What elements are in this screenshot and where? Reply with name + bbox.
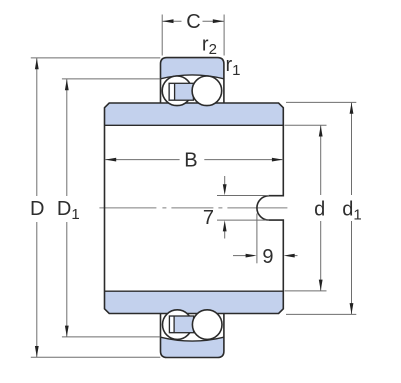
cage top rivet window xyxy=(170,84,174,99)
dimension d extension line bottom xyxy=(285,290,327,292)
svg-text:B: B xyxy=(184,149,197,171)
dimension D arrow bottom xyxy=(35,346,39,357)
centerline (horizontal axis, dash-dot) xyxy=(99,207,289,209)
ball top-left xyxy=(162,76,192,106)
outer ring bottom blue portion xyxy=(161,337,224,357)
cage bottom rivet window xyxy=(170,317,173,332)
dimension B arrow left xyxy=(105,158,116,162)
dimension D extension line top xyxy=(31,57,161,59)
dimension C arrow right xyxy=(213,19,224,23)
outer ring top raceway arc xyxy=(161,75,224,79)
outer ring bottom section (white body) xyxy=(161,314,224,358)
dimension d arrow bottom xyxy=(319,280,323,291)
inner ring top band inner edge xyxy=(105,124,284,126)
cage top (blue) xyxy=(169,83,193,100)
dimension 9 line right xyxy=(293,255,298,257)
inner ring top band (blue) xyxy=(105,103,284,125)
cage top rivet divider xyxy=(174,83,176,100)
outer ring bottom outline xyxy=(161,314,224,358)
dimension 7 arrow bottom xyxy=(223,220,227,231)
cage bottom (blue) xyxy=(169,316,193,333)
dimension C arrow left xyxy=(162,19,173,23)
dimension 9 line left xyxy=(233,255,247,257)
ball bottom-left xyxy=(163,310,193,340)
dimension D1 arrow bottom xyxy=(65,326,69,337)
dimension C extension line left xyxy=(161,15,163,56)
dimension D1 arrow top xyxy=(65,79,69,90)
dimension D line xyxy=(36,58,38,196)
dimension 7 arrow top xyxy=(223,184,227,195)
dimension d1 extension line bottom xyxy=(286,313,356,315)
dimension 9 arrow right xyxy=(284,254,295,258)
outer ring top section (white body) xyxy=(161,58,224,103)
dimension 9 extension line xyxy=(256,214,258,264)
inner ring bottom band (blue) xyxy=(105,291,284,313)
svg-text:D: D xyxy=(30,198,44,220)
svg-text:7: 7 xyxy=(203,207,214,229)
dimension B arrow right xyxy=(272,158,283,162)
ball bottom-right xyxy=(192,310,222,340)
inner ring outline stroke xyxy=(105,103,284,314)
dimension d line xyxy=(320,125,322,195)
svg-text:9: 9 xyxy=(262,246,273,268)
cage bottom rivet divider xyxy=(173,316,175,333)
dimension C line xyxy=(162,20,181,22)
ball top-right xyxy=(192,76,222,106)
dimension D arrow top xyxy=(35,58,39,69)
outer ring top blue portion xyxy=(161,58,224,79)
dimension d1 line xyxy=(351,103,353,195)
dimension D1 line xyxy=(66,79,68,196)
inner ring body (main rectangle with notch) xyxy=(105,103,284,314)
dimension d extension line top xyxy=(285,124,327,126)
svg-text:C: C xyxy=(186,11,200,33)
dimension B line xyxy=(105,159,180,161)
dimension 9 arrow left xyxy=(246,254,257,258)
dimension d1 arrow bottom xyxy=(350,303,354,314)
dimension D1 extension line bottom xyxy=(62,336,160,338)
dimension C extension line right xyxy=(223,15,225,56)
dimension D1 extension line top xyxy=(62,78,160,80)
inner ring bottom band inner edge xyxy=(105,290,284,292)
outer ring top outline xyxy=(161,58,224,103)
dimension D extension line bottom xyxy=(31,356,161,358)
dimension 7 extension line top xyxy=(217,195,269,197)
dimension d arrow top xyxy=(319,125,323,136)
dimension 7 line top xyxy=(224,176,226,186)
dimension d1 extension line top xyxy=(286,101,356,103)
dimension 7 line bottom xyxy=(224,230,226,239)
dimension d1 arrow top xyxy=(350,103,354,114)
outer ring bottom raceway arc xyxy=(161,337,224,341)
svg-text:d: d xyxy=(314,198,325,220)
dimension 7 extension line bottom xyxy=(217,219,269,221)
